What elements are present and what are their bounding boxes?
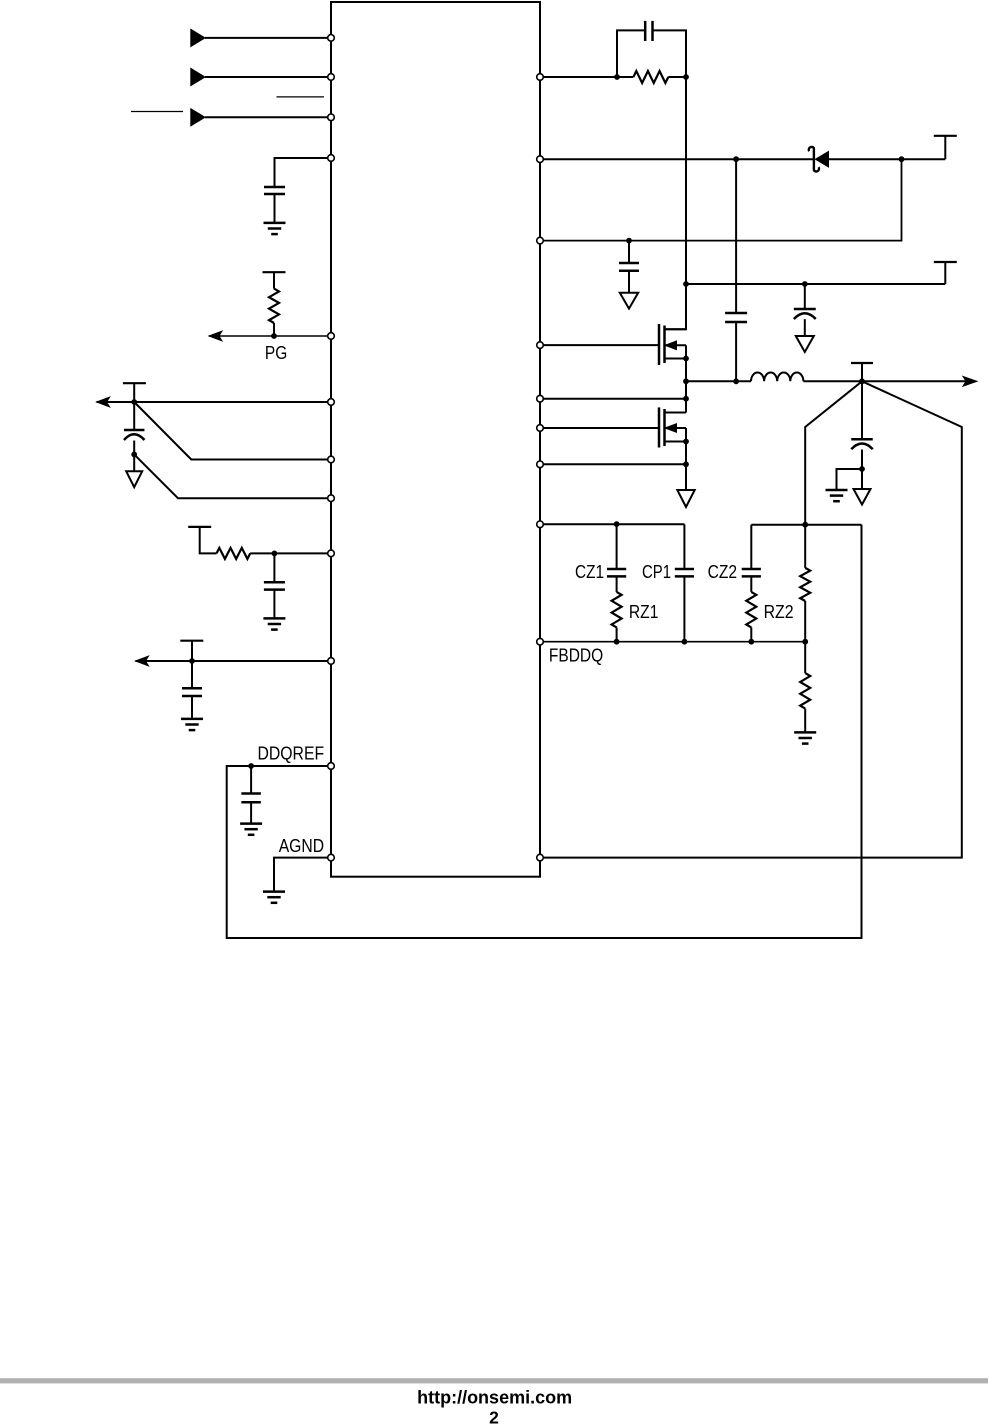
svg-text:CP1: CP1 xyxy=(642,562,671,582)
svg-text:CZ1: CZ1 xyxy=(575,562,604,582)
svg-text:RZ2: RZ2 xyxy=(764,602,794,622)
svg-text:FBDDQ: FBDDQ xyxy=(549,646,603,666)
svg-text:AGND: AGND xyxy=(279,836,324,856)
svg-text:RZ1: RZ1 xyxy=(629,602,659,622)
svg-text:CZ2: CZ2 xyxy=(708,562,738,582)
svg-text:http://onsemi.com: http://onsemi.com xyxy=(417,1386,572,1407)
svg-text:2: 2 xyxy=(489,1408,499,1424)
svg-text:PG: PG xyxy=(265,343,287,363)
svg-text:DDQREF: DDQREF xyxy=(258,744,325,764)
